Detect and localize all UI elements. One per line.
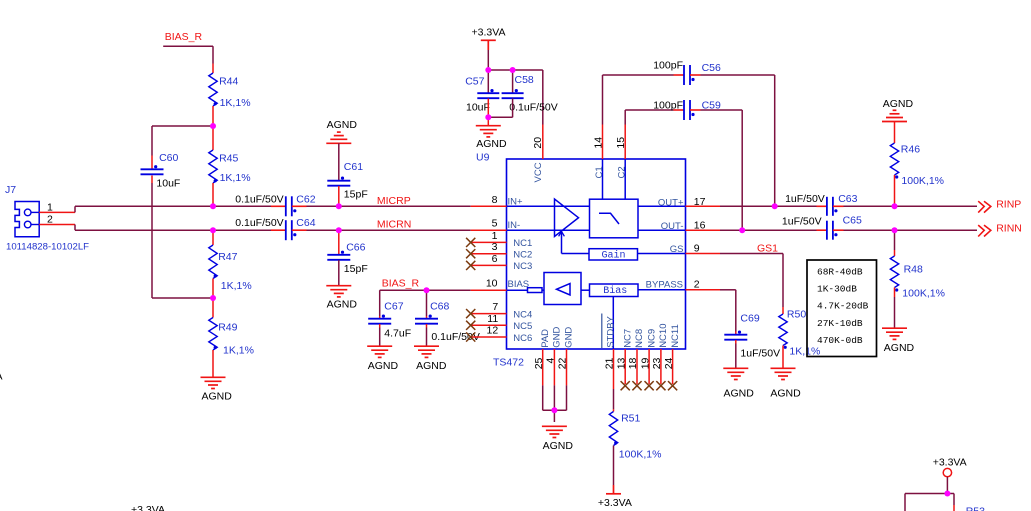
svg-text:NC6: NC6 bbox=[513, 333, 532, 344]
gain feedback arrow bbox=[562, 253, 590, 255]
wire PAD/GND pins to AGND bbox=[542, 385, 544, 410]
wire RINN to R48 bbox=[894, 230, 896, 250]
resistor R49 bbox=[212, 298, 214, 318]
OUT+ line inside U9 bbox=[638, 205, 686, 207]
svg-text:BIAS_R: BIAS_R bbox=[165, 31, 203, 43]
svg-text:STDBY: STDBY bbox=[606, 315, 617, 347]
resistor R45 bbox=[212, 126, 214, 150]
svg-text:100pF: 100pF bbox=[653, 99, 683, 111]
wire to C68 bbox=[426, 290, 428, 316]
svg-text:NC10: NC10 bbox=[658, 324, 669, 348]
wire C68 to AGND bbox=[426, 324, 428, 328]
junction node bbox=[485, 67, 491, 73]
bias box inside U9 bbox=[581, 289, 590, 291]
svg-text:BIAS: BIAS bbox=[508, 279, 530, 290]
svg-text:+3.3VA: +3.3VA bbox=[933, 456, 967, 468]
svg-text:10: 10 bbox=[486, 278, 498, 290]
wire C57 to AGND bbox=[487, 99, 489, 126]
svg-text:AGND: AGND bbox=[770, 388, 801, 400]
svg-text:0.1uF/50V: 0.1uF/50V bbox=[509, 101, 557, 113]
junction node bbox=[424, 287, 430, 293]
svg-text:J7: J7 bbox=[5, 184, 16, 196]
wire R50 to AGND bbox=[782, 346, 784, 369]
svg-text:100pF: 100pF bbox=[653, 59, 683, 71]
wire OUT- to C65 bbox=[720, 229, 817, 231]
svg-text:1uF/50V: 1uF/50V bbox=[740, 347, 780, 359]
wire bottom-right block bbox=[905, 493, 954, 495]
wire STDBY to R51 bbox=[613, 389, 615, 409]
svg-text:R48: R48 bbox=[904, 263, 923, 275]
resistor R44 bbox=[209, 73, 217, 106]
svg-text:R44: R44 bbox=[219, 75, 238, 87]
capacitor C59 bbox=[684, 100, 690, 120]
svg-text:15pF: 15pF bbox=[344, 263, 368, 275]
capacitor C69 bbox=[724, 335, 747, 340]
wire BYPASS to C69 bbox=[720, 289, 736, 291]
svg-text:NC2: NC2 bbox=[513, 250, 532, 261]
svg-text:NC8: NC8 bbox=[634, 329, 645, 348]
port RINP bbox=[978, 201, 991, 212]
wire C65 to RINN bbox=[833, 229, 844, 231]
ground AGND under C66 bbox=[326, 286, 351, 297]
junction node bbox=[336, 203, 342, 209]
junction node bbox=[772, 203, 778, 209]
svg-text:AGND: AGND bbox=[884, 342, 915, 354]
svg-text:PAD: PAD bbox=[540, 329, 551, 348]
wire VCC feed bbox=[488, 69, 543, 71]
wire BIAS_R to R44 bbox=[163, 45, 213, 47]
svg-text:C58: C58 bbox=[515, 74, 534, 86]
junction node bbox=[210, 203, 216, 209]
svg-text:AGND: AGND bbox=[416, 360, 447, 372]
svg-text:NC3: NC3 bbox=[513, 261, 532, 272]
svg-text:OUT-: OUT- bbox=[661, 221, 684, 232]
junction node bbox=[739, 227, 745, 233]
svg-text:NC4: NC4 bbox=[513, 309, 532, 320]
wire AGND to R46 bbox=[894, 122, 896, 144]
resistor R46 bbox=[890, 143, 898, 175]
svg-text:1K,1%: 1K,1% bbox=[221, 280, 252, 292]
resistor R51 bbox=[609, 412, 617, 446]
svg-text:C66: C66 bbox=[346, 241, 365, 253]
ground AGND under C67 bbox=[367, 346, 392, 357]
power +3.3VA (bottom) bbox=[613, 485, 615, 494]
bias amp box inside U9 bbox=[544, 273, 581, 305]
svg-text:68R-40dB: 68R-40dB bbox=[817, 267, 863, 278]
wire +3.3VA down bbox=[487, 50, 489, 70]
wire +3.3VA circle down bbox=[946, 477, 948, 494]
svg-text:OUT+: OUT+ bbox=[658, 198, 684, 209]
C1 line inside U9 bbox=[602, 159, 604, 199]
svg-text:C56: C56 bbox=[702, 62, 721, 74]
wire C59 to OUT- bbox=[690, 109, 701, 111]
svg-text:BIAS_R: BIAS_R bbox=[382, 277, 420, 289]
wire R46 to RINP bbox=[894, 175, 896, 206]
svg-text:R49: R49 bbox=[218, 322, 237, 334]
svg-text:Gain: Gain bbox=[601, 249, 625, 261]
amplifier triangle inside U9 bbox=[555, 199, 579, 237]
wire R48 to AGND bbox=[894, 288, 896, 298]
svg-text:+3.3VA: +3.3VA bbox=[598, 497, 632, 509]
svg-text:10uF: 10uF bbox=[156, 177, 180, 189]
svg-text:+3.3VA: +3.3VA bbox=[131, 504, 165, 511]
svg-text:R53: R53 bbox=[966, 505, 985, 511]
wire C2 to C59 bbox=[624, 110, 626, 125]
svg-text:NC5: NC5 bbox=[513, 321, 532, 332]
svg-text:9: 9 bbox=[694, 243, 700, 255]
capacitor C63 bbox=[827, 197, 833, 216]
svg-text:AGND: AGND bbox=[724, 388, 755, 400]
svg-text:1K,1%: 1K,1% bbox=[220, 97, 251, 109]
port RINN bbox=[978, 225, 991, 236]
wire C67 to AGND bbox=[379, 324, 381, 328]
wire AGND to C61 bbox=[338, 143, 340, 180]
capacitor C61 bbox=[327, 181, 350, 186]
gain box inside U9 bbox=[589, 249, 638, 260]
svg-text:R47: R47 bbox=[218, 251, 237, 263]
wire C58 branch upper bbox=[512, 70, 514, 93]
svg-text:1K,1%: 1K,1% bbox=[789, 345, 820, 357]
svg-text:C2: C2 bbox=[617, 166, 628, 178]
junction node bbox=[510, 67, 516, 73]
wire C56 to OUT+ bbox=[690, 74, 701, 76]
svg-text:C67: C67 bbox=[384, 300, 403, 312]
svg-text:1K,1%: 1K,1% bbox=[220, 172, 251, 184]
svg-text:1uF/50V: 1uF/50V bbox=[782, 216, 822, 228]
filter block inside U9 bbox=[590, 199, 639, 238]
svg-text:Bias: Bias bbox=[603, 285, 627, 297]
svg-text:AGND: AGND bbox=[883, 98, 914, 110]
capacitor C66 bbox=[327, 255, 350, 260]
IN+ line inside U9 bbox=[507, 205, 590, 207]
stdby line inside U9 bbox=[612, 297, 614, 350]
svg-text:AGND: AGND bbox=[543, 440, 574, 452]
svg-text:R45: R45 bbox=[219, 152, 238, 164]
wire C60 branch lower bbox=[151, 176, 153, 184]
svg-text:3: 3 bbox=[492, 241, 498, 253]
svg-text:RINN: RINN bbox=[996, 223, 1022, 235]
svg-text:AGND: AGND bbox=[368, 360, 399, 372]
svg-text:0.1uF/50V: 0.1uF/50V bbox=[235, 194, 283, 206]
ground AGND under C69 bbox=[723, 368, 748, 379]
wire C57 branch upper bbox=[487, 70, 489, 93]
junction node bbox=[551, 407, 557, 413]
svg-text:AGND: AGND bbox=[327, 299, 358, 311]
junction node bbox=[210, 295, 216, 301]
svg-text:R51: R51 bbox=[621, 412, 640, 424]
svg-text:15pF: 15pF bbox=[344, 189, 368, 201]
op-amp U9 TS472 body bbox=[507, 159, 686, 349]
wire MICRN to C66 bbox=[338, 230, 340, 255]
svg-text:GND: GND bbox=[564, 327, 575, 348]
wire GS to R50 bbox=[720, 253, 783, 255]
svg-text:470K-0dB: 470K-0dB bbox=[817, 335, 863, 346]
junction node bbox=[944, 491, 950, 497]
svg-text:NC7: NC7 bbox=[622, 329, 633, 348]
svg-text:IN-: IN- bbox=[508, 220, 521, 231]
junction node bbox=[336, 227, 342, 233]
gain table box bbox=[807, 260, 877, 357]
connector J7 bbox=[15, 202, 39, 237]
svg-text:7: 7 bbox=[492, 301, 498, 313]
svg-text:100K,1%: 100K,1% bbox=[902, 287, 945, 299]
svg-text:4.7uF: 4.7uF bbox=[384, 328, 411, 340]
svg-text:27K-10dB: 27K-10dB bbox=[817, 318, 863, 329]
svg-text:4.7K-20dB: 4.7K-20dB bbox=[817, 301, 869, 312]
ground AGND under R49 bbox=[201, 377, 226, 388]
svg-text:C64: C64 bbox=[296, 217, 315, 229]
ground AGND under C57 bbox=[476, 126, 501, 137]
svg-text:C57: C57 bbox=[465, 75, 484, 87]
svg-text:AGND: AGND bbox=[476, 138, 507, 150]
ground AGND under R48 bbox=[882, 328, 907, 339]
svg-text:5: 5 bbox=[492, 218, 498, 230]
wire C66 to AGND bbox=[338, 260, 340, 286]
wire BIAS_R row bbox=[380, 289, 471, 291]
junction node bbox=[892, 203, 898, 209]
junction node bbox=[485, 114, 491, 120]
svg-text:10uF: 10uF bbox=[466, 101, 490, 113]
capacitor C56 bbox=[684, 65, 690, 85]
ground AGND under R50 bbox=[771, 368, 796, 379]
svg-text:8: 8 bbox=[492, 194, 498, 206]
svg-text:NC11: NC11 bbox=[670, 324, 681, 348]
bias input resistor inside U9 bbox=[507, 289, 528, 291]
wire R51 to +3.3VA bbox=[613, 446, 615, 486]
svg-text:A: A bbox=[0, 371, 3, 383]
svg-text:C62: C62 bbox=[296, 194, 315, 206]
resistor R50 bbox=[782, 307, 784, 314]
svg-text:AGND: AGND bbox=[202, 391, 233, 403]
svg-text:2: 2 bbox=[47, 214, 53, 226]
ground AGND under U9 bbox=[542, 426, 567, 437]
svg-text:NC9: NC9 bbox=[646, 329, 657, 348]
junction node bbox=[210, 227, 216, 233]
svg-text:MICRN: MICRN bbox=[377, 219, 411, 231]
svg-text:TS472: TS472 bbox=[493, 356, 524, 368]
svg-text:2: 2 bbox=[694, 278, 700, 290]
svg-text:C1: C1 bbox=[594, 166, 605, 178]
svg-text:R50: R50 bbox=[787, 308, 806, 320]
wire C1 to C56 bbox=[602, 75, 604, 125]
svg-text:GND: GND bbox=[552, 327, 563, 348]
svg-text:20: 20 bbox=[532, 137, 544, 149]
svg-text:GS1: GS1 bbox=[757, 243, 778, 255]
junction node bbox=[210, 123, 216, 129]
capacitor C65 bbox=[827, 221, 833, 240]
svg-text:C63: C63 bbox=[838, 193, 857, 205]
svg-text:1: 1 bbox=[47, 201, 53, 213]
svg-text:+3.3VA: +3.3VA bbox=[472, 26, 506, 38]
svg-text:12: 12 bbox=[487, 325, 499, 337]
capacitor C58 bbox=[502, 93, 524, 98]
ground AGND under C68 bbox=[414, 346, 439, 357]
svg-text:AGND: AGND bbox=[327, 119, 358, 131]
resistor R47 bbox=[212, 230, 214, 245]
wire node to C60 branch bbox=[152, 125, 213, 127]
svg-text:IN+: IN+ bbox=[508, 196, 524, 207]
wire C61 to MICRP bbox=[338, 186, 340, 206]
svg-text:C69: C69 bbox=[740, 313, 759, 325]
svg-text:VCC: VCC bbox=[533, 162, 544, 182]
svg-text:R46: R46 bbox=[901, 143, 920, 155]
svg-text:C68: C68 bbox=[430, 300, 449, 312]
svg-text:C60: C60 bbox=[159, 152, 178, 164]
svg-text:BYPASS: BYPASS bbox=[646, 280, 683, 291]
wire J7 pin2 to MICRN bbox=[74, 225, 76, 231]
svg-text:GS: GS bbox=[670, 244, 684, 255]
svg-text:100K,1%: 100K,1% bbox=[901, 175, 944, 187]
wire C63 to RINP bbox=[833, 205, 844, 207]
svg-text:0.1uF/50V: 0.1uF/50V bbox=[235, 217, 283, 229]
wire C69 to AGND bbox=[735, 340, 737, 344]
IN- line inside U9 bbox=[507, 229, 590, 231]
resistor R48 bbox=[890, 256, 898, 288]
capacitor C67 bbox=[368, 319, 391, 324]
junction node bbox=[892, 227, 898, 233]
wire OUT+ to C63 bbox=[720, 205, 817, 207]
capacitor C57 bbox=[477, 93, 499, 98]
svg-text:1K,1%: 1K,1% bbox=[223, 345, 254, 357]
svg-text:C65: C65 bbox=[843, 215, 862, 227]
wire J7 pin1 to MICRP bbox=[74, 206, 76, 212]
svg-text:10114828-10102LF: 10114828-10102LF bbox=[6, 241, 89, 252]
svg-text:U9: U9 bbox=[476, 152, 490, 164]
svg-text:NC1: NC1 bbox=[513, 238, 532, 249]
capacitor C60 bbox=[141, 169, 164, 174]
svg-text:1: 1 bbox=[492, 230, 498, 242]
svg-text:11: 11 bbox=[487, 313, 498, 325]
svg-text:C61: C61 bbox=[344, 161, 363, 173]
C2 line inside U9 bbox=[624, 159, 626, 199]
svg-text:1uF/50V: 1uF/50V bbox=[785, 193, 825, 205]
wire to C67 bbox=[379, 290, 381, 316]
wire C60 branch upper bbox=[151, 126, 153, 156]
svg-text:MICRP: MICRP bbox=[377, 195, 411, 207]
wire R44 to node bbox=[212, 106, 214, 126]
svg-text:RINP: RINP bbox=[996, 199, 1021, 211]
svg-text:100K,1%: 100K,1% bbox=[619, 448, 662, 460]
capacitor C68 bbox=[415, 319, 438, 324]
wire C60 branch to R47/R49 node bbox=[152, 297, 213, 299]
wire C58 branch lower bbox=[512, 99, 514, 118]
svg-text:6: 6 bbox=[492, 253, 498, 265]
OUT- line inside U9 bbox=[638, 229, 686, 231]
svg-text:1K-30dB: 1K-30dB bbox=[817, 284, 857, 295]
